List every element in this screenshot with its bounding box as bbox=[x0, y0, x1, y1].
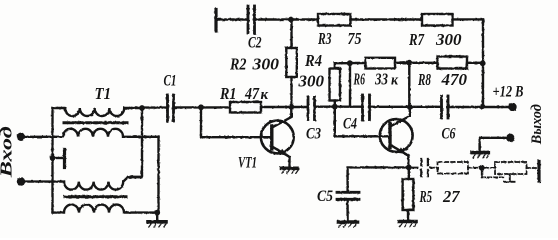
resistor R5 bbox=[403, 179, 414, 210]
transistor VT2 bbox=[380, 119, 413, 152]
ground C5 bbox=[339, 220, 358, 224]
svg-text:R3: R3 bbox=[317, 29, 332, 48]
wire C6 to +12V terminal bbox=[448, 106, 509, 108]
wire to T1 ground bbox=[156, 213, 158, 220]
transformer T1 winding 3 bbox=[64, 177, 142, 190]
resistor R6 bbox=[366, 58, 396, 69]
terminal bar top left bbox=[214, 10, 217, 32]
svg-text:С5: С5 bbox=[317, 188, 333, 205]
svg-text:+12 В: +12 В bbox=[493, 84, 524, 101]
capacitor C4 bbox=[361, 95, 364, 120]
svg-text:С4: С4 bbox=[343, 116, 357, 133]
wire C4 to C6 bbox=[370, 106, 442, 108]
wire C3 to C4 bbox=[315, 105, 363, 107]
wire R6 right down to VT2 collector bbox=[408, 63, 410, 107]
VT1 collector lead bbox=[273, 107, 292, 127]
svg-text:300: 300 bbox=[298, 72, 325, 91]
wire output ground terminal bbox=[480, 137, 507, 139]
node E (VT2 emitter) bbox=[406, 165, 412, 171]
node A (C1/R1/VT1 base) bbox=[198, 104, 204, 110]
wire T1 left rail bbox=[51, 108, 53, 213]
svg-text:R2: R2 bbox=[229, 55, 247, 74]
svg-text:к: к bbox=[391, 73, 398, 89]
svg-text:С6: С6 bbox=[442, 126, 456, 143]
transistor VT1 bbox=[261, 121, 294, 154]
input terminal lower bbox=[17, 177, 25, 185]
junction R6 right / R8 left bbox=[406, 60, 412, 66]
ground output bbox=[478, 138, 480, 152]
VT1 emitter lead bbox=[273, 147, 290, 157]
wire winding 2 right down to winding 4 right bbox=[157, 137, 159, 213]
wire R8 right bbox=[467, 62, 483, 64]
transformer T1 core lower bbox=[65, 195, 126, 198]
wire R5 bottom bbox=[407, 210, 409, 220]
svg-text:R4: R4 bbox=[304, 51, 322, 70]
junction C6 right / +12V feed bbox=[480, 104, 486, 110]
svg-text:300: 300 bbox=[435, 30, 462, 49]
capacitor C2 bbox=[247, 6, 250, 33]
node B (R1/R2/VT1 collector/C3) bbox=[288, 104, 294, 110]
dashed capacitor bbox=[420, 159, 422, 177]
svg-text:R5: R5 bbox=[419, 187, 432, 206]
wire R2 bottom bbox=[290, 77, 292, 107]
svg-text:33: 33 bbox=[374, 70, 388, 89]
junction T1 winding 1 right bbox=[139, 105, 145, 111]
svg-text:R1: R1 bbox=[219, 84, 236, 103]
ground R5 bbox=[399, 220, 416, 224]
ground T1 bbox=[148, 220, 166, 224]
wire input lower to T1 winding 3 bbox=[21, 180, 64, 182]
svg-text:С2: С2 bbox=[248, 35, 262, 52]
capacitor C3 bbox=[307, 97, 310, 120]
wire C2 to R3 bbox=[255, 18, 319, 20]
svg-text:R8: R8 bbox=[417, 70, 431, 89]
svg-text:47: 47 bbox=[244, 84, 260, 103]
wire R3 to R7 bbox=[351, 18, 423, 20]
node D (VT2 collector) bbox=[407, 104, 413, 110]
VT2 emitter lead bbox=[391, 145, 408, 155]
wire emitter to dashed capacitor bbox=[412, 167, 418, 169]
wire right rail bbox=[482, 19, 484, 106]
wire winding 1 right down to winding 3 right bbox=[128, 108, 142, 177]
capacitor C6 bbox=[440, 96, 443, 118]
chassis bar bbox=[63, 150, 66, 168]
junction T1 winding 4 right bbox=[154, 210, 160, 216]
resistor R3 bbox=[318, 14, 351, 26]
wire R7 to right rail bbox=[453, 18, 484, 20]
wire R5 top bbox=[408, 167, 410, 179]
resistor R2 bbox=[286, 48, 297, 77]
svg-text:R6: R6 bbox=[353, 70, 365, 89]
capacitor C5 bbox=[337, 191, 359, 194]
svg-text:75: 75 bbox=[348, 29, 362, 48]
transformer T1 winding 4 bbox=[53, 205, 158, 213]
svg-text:R7: R7 bbox=[408, 30, 425, 49]
svg-text:Т1: Т1 bbox=[95, 84, 112, 103]
wire emitter to C5 bbox=[348, 167, 409, 191]
wire R4 top bbox=[335, 63, 350, 68]
wire to R6 bbox=[350, 62, 366, 64]
wire R6 to R8 bbox=[395, 62, 438, 64]
dashed resistor box 2 bbox=[495, 162, 527, 174]
junction on dashed line bbox=[479, 165, 485, 171]
wire input upper to T1 winding 2 bbox=[21, 136, 63, 138]
svg-text:27: 27 bbox=[442, 187, 460, 206]
wire terminal to C2 bbox=[216, 18, 248, 20]
wire C1 to node A bbox=[174, 106, 231, 108]
wire VT1 base feed bbox=[201, 107, 271, 137]
transformer T1 winding 2 bbox=[63, 129, 159, 137]
wire R4 bottom bbox=[334, 101, 336, 107]
capacitor C1 bbox=[166, 95, 169, 121]
svg-text:Выход: Выход bbox=[529, 104, 545, 145]
dashed under-path bbox=[481, 168, 483, 178]
dashed wire bbox=[485, 167, 496, 169]
svg-text:470: 470 bbox=[441, 70, 468, 89]
resistor R7 bbox=[422, 14, 453, 26]
svg-text:Вход: Вход bbox=[0, 126, 16, 179]
resistor R8 bbox=[438, 57, 468, 69]
dashed wire to output bar bbox=[527, 167, 537, 169]
resistor R1 bbox=[230, 102, 261, 113]
transformer T1 core upper bbox=[64, 121, 127, 124]
terminal +12V / output bbox=[508, 103, 516, 111]
svg-text:VT1: VT1 bbox=[238, 155, 257, 172]
svg-text:к: к bbox=[261, 87, 269, 103]
node C (C3/R4/VT2 base) bbox=[332, 104, 338, 110]
junction R4/R6/C4 bbox=[347, 60, 353, 66]
svg-text:С3: С3 bbox=[306, 126, 321, 143]
junction R8 right bbox=[480, 60, 486, 66]
wire C4 feedback vertical bbox=[349, 63, 351, 106]
svg-text:300: 300 bbox=[251, 55, 279, 74]
VT2 collector lead bbox=[391, 107, 410, 126]
dashed resistor box 1 bbox=[438, 162, 469, 174]
chassis stub wire bbox=[53, 157, 63, 159]
input terminal upper bbox=[17, 133, 25, 141]
transformer T1 winding 1 bbox=[53, 108, 143, 116]
dashed wire bbox=[468, 167, 479, 169]
wire VT2 base feed bbox=[335, 107, 390, 137]
ground VT1 emitter bbox=[282, 167, 298, 171]
svg-text:С1: С1 bbox=[164, 73, 177, 90]
wire R1 to node B bbox=[261, 106, 308, 108]
wire R2 top bbox=[290, 20, 292, 49]
wire T1 to C1 bbox=[142, 106, 168, 108]
terminal bar right bbox=[537, 162, 540, 182]
junction on T1 left rail bbox=[50, 155, 56, 161]
dashed wire bbox=[431, 167, 438, 169]
junction C2/R2/R3 bbox=[288, 17, 294, 23]
terminal output ground bbox=[506, 134, 514, 142]
resistor R4 bbox=[330, 69, 341, 101]
